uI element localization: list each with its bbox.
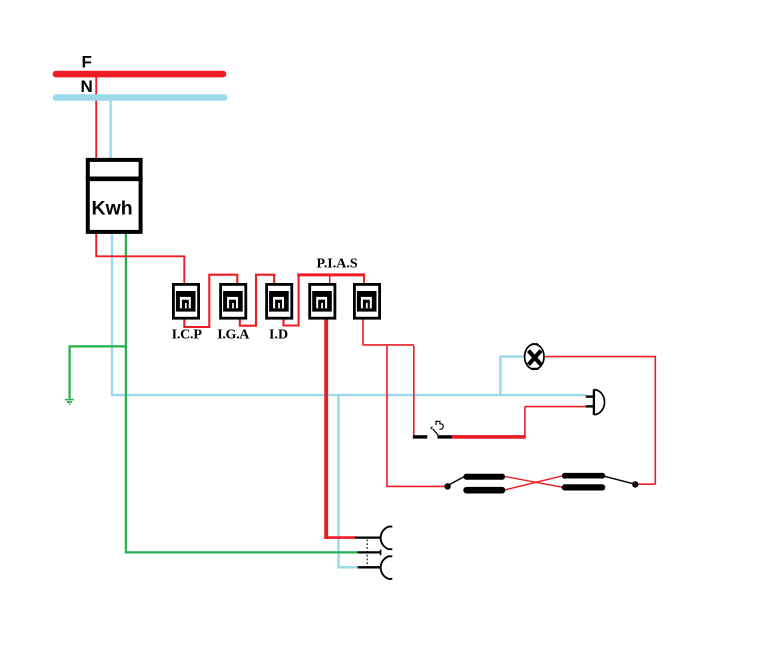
switch S1 (bell push)	[413, 421, 452, 437]
breaker PIAS-1	[310, 284, 335, 318]
socket earth pin	[358, 550, 381, 556]
buzzer Z1	[586, 389, 605, 415]
wire red phase F to Kwh	[95, 76, 97, 159]
wire red Kwh to breaker ICP	[95, 232, 184, 284]
wire neutral rail cyan: Kwh down and long horizontal to buzzer	[111, 100, 587, 395]
wire red PIAS-2 feed	[362, 319, 414, 345]
wire green horizontal to socket earth	[125, 551, 358, 553]
breaker I.G.A	[221, 284, 246, 318]
wire red IGA to ID	[239, 274, 274, 327]
wire red lamp to commutator	[545, 356, 656, 484]
wire red crossover X	[505, 476, 563, 490]
wire red PIAS distribution bar	[297, 273, 365, 276]
wire red thick PIAS-1 feed to socket 1	[324, 319, 328, 539]
wire red drop to bell switch	[413, 346, 415, 436]
svg-text:I.C.P: I.C.P	[172, 328, 203, 343]
wire red bar drop to PIAS-2	[363, 276, 365, 284]
wire red ICP to IGA	[183, 274, 237, 328]
ground symbol	[65, 400, 74, 405]
svg-text:F: F	[82, 53, 92, 72]
wire red thick switch output	[452, 435, 526, 439]
wire red ID up to PIAS bar	[283, 274, 299, 327]
commutator switch right (3-way)	[562, 473, 639, 491]
wire red bar drop to PIAS-1	[329, 276, 331, 284]
wire green earth: Kwh down to socket level	[125, 232, 127, 552]
socket X1 (top outlet)	[355, 527, 392, 550]
svg-text:Kwh: Kwh	[92, 198, 133, 220]
svg-text:P.I.A.S: P.I.A.S	[317, 257, 358, 272]
wire cyan lamp feed	[500, 356, 524, 396]
wire red switch to buzzer	[525, 407, 589, 436]
meter Kwh	[86, 160, 143, 232]
breaker PIAS-2	[354, 284, 379, 318]
wire red drop to commutator circuit	[386, 346, 445, 487]
breaker I.C.P	[173, 284, 198, 318]
socket X2 (bottom outlet)	[358, 556, 393, 579]
bus N neutral bar	[56, 94, 224, 101]
svg-text:N: N	[81, 77, 93, 96]
dashed link between sockets	[366, 540, 368, 567]
commutator switch left (3-way)	[444, 474, 505, 494]
lamp L1	[525, 344, 544, 369]
svg-text:I.G.A: I.G.A	[217, 328, 250, 343]
wire green branch to ground	[69, 345, 127, 398]
breaker I.D	[267, 284, 292, 318]
svg-text:I.D: I.D	[269, 328, 288, 343]
wire cyan branch to socket 2	[337, 395, 358, 567]
bus F phase bar	[56, 71, 223, 78]
